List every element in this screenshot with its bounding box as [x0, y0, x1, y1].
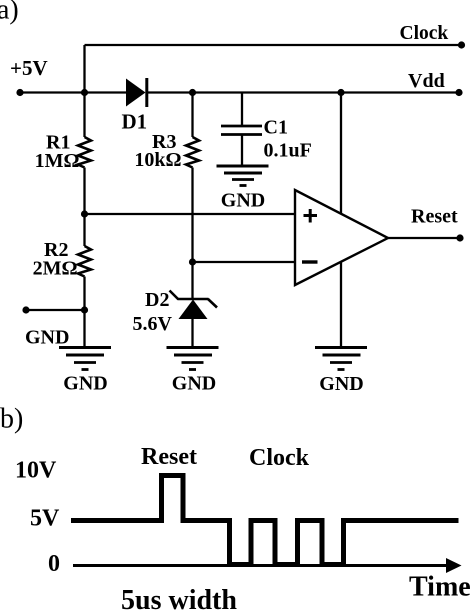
svg-text:5.6V: 5.6V: [133, 313, 173, 335]
svg-text:Time: Time: [409, 572, 471, 603]
svg-text:10V: 10V: [15, 458, 57, 484]
waveform trace: [71, 476, 459, 565]
wire left rail middle segment: [83, 168, 85, 247]
svg-text:1MΩ: 1MΩ: [35, 150, 80, 172]
junction ground stub: [81, 306, 88, 313]
svg-text:D2: D2: [145, 289, 169, 311]
node +5V terminal: [16, 89, 23, 96]
junction R3 top: [189, 89, 196, 96]
svg-text:GND: GND: [25, 327, 69, 349]
capacitor C1 bottom stem: [241, 136, 243, 167]
svg-text:0.1uF: 0.1uF: [264, 140, 312, 162]
ground symbol left rail: [59, 348, 111, 370]
capacitor C1 plates: [221, 126, 262, 135]
diode D1: [126, 78, 147, 107]
wire R3 rail lower: [191, 168, 193, 300]
time axis: [73, 558, 462, 573]
wire left rail lower segment: [83, 277, 85, 349]
node Reset terminal: [456, 234, 463, 241]
svg-text:GND: GND: [63, 373, 107, 395]
wire left rail upper segment: [83, 45, 85, 137]
node ground stub terminal: [22, 306, 29, 313]
svg-text:0: 0: [48, 551, 60, 577]
wire Vdd rail: [147, 91, 459, 93]
wire Clock top rail: [85, 44, 462, 46]
op-amp − input marking: [302, 260, 318, 263]
junction non-inverting node: [81, 210, 88, 217]
svg-text:+5V: +5V: [10, 56, 48, 80]
wire to op-amp + input: [85, 213, 297, 215]
wire D2 to ground: [191, 319, 193, 348]
svg-text:GND: GND: [221, 190, 265, 212]
junction +5V rail: [81, 89, 88, 96]
op-amp U1: [295, 190, 388, 285]
capacitor C1 top stem: [241, 93, 243, 126]
wire Reset output: [388, 237, 460, 239]
wire R3 rail upper: [191, 93, 193, 138]
node Vdd terminal: [455, 89, 462, 96]
svg-text:Reset: Reset: [411, 206, 458, 228]
svg-text:D1: D1: [122, 110, 148, 134]
op-amp + input marking: [304, 209, 318, 223]
svg-text:GND: GND: [172, 373, 216, 395]
ground symbol op-amp: [315, 348, 367, 370]
zener diode D2: [170, 291, 218, 320]
svg-text:5us width: 5us width: [121, 585, 237, 611]
junction inverting node: [189, 258, 196, 265]
node Clock terminal: [458, 41, 465, 48]
resistor R1: [78, 137, 91, 168]
svg-text:2MΩ: 2MΩ: [33, 258, 78, 280]
wire op-amp supply rail vertical: [340, 93, 342, 349]
svg-text:Clock: Clock: [400, 23, 449, 44]
wire ground stub: [26, 309, 85, 311]
wire +5V feed: [20, 91, 126, 93]
svg-text:Reset: Reset: [141, 444, 197, 470]
svg-text:5V: 5V: [30, 506, 60, 532]
resistor R2: [78, 246, 91, 277]
ground symbol C1: [217, 166, 269, 186]
resistor R3: [186, 137, 199, 168]
svg-text:b): b): [0, 404, 23, 435]
svg-text:Clock: Clock: [249, 445, 310, 471]
ground symbol D2: [167, 348, 219, 370]
junction op-amp supply: [337, 89, 344, 96]
svg-text:Vdd: Vdd: [408, 70, 445, 92]
svg-text:a): a): [0, 0, 19, 26]
wire to op-amp − input: [193, 261, 297, 263]
svg-text:C1: C1: [264, 117, 288, 139]
svg-text:GND: GND: [319, 373, 363, 395]
svg-text:10kΩ: 10kΩ: [134, 149, 181, 171]
